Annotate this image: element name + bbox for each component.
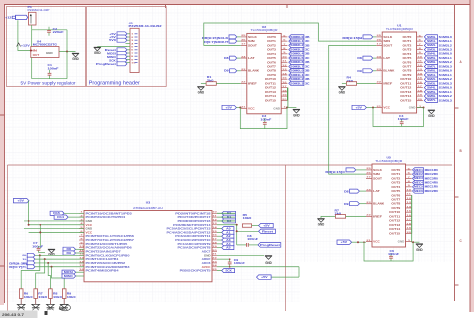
svg-text:OUT2: OUT2	[267, 43, 276, 47]
svg-text:D14: D14	[57, 215, 64, 219]
svg-text:OUT15: OUT15	[265, 98, 277, 102]
svg-text:OUT1: OUT1	[391, 172, 400, 176]
svg-text:S1M1L1: S1M1L1	[439, 57, 453, 60]
svg-text:OUT11: OUT11	[400, 81, 412, 85]
svg-text:+12V: +12V	[21, 43, 30, 47]
svg-text:GND: GND	[94, 51, 101, 55]
svg-text:OUT1: OUT1	[267, 39, 276, 43]
svg-text:3B: 3B	[305, 44, 310, 47]
svg-text:PCINT0/CLKO/ICP1/PB0: PCINT0/CLKO/ICP1/PB0	[86, 253, 131, 257]
svg-text:S1M2L2: S1M2L2	[439, 78, 453, 81]
svg-text:SM7L: SM7L	[427, 99, 436, 102]
svg-text:5V Power supply regulator: 5V Power supply regulator	[21, 80, 77, 85]
svg-text:PCINT7/XTAL2/TOSC2/PB7: PCINT7/XTAL2/TOSC2/PB7	[86, 238, 135, 242]
svg-text:S0M2L2: S0M2L2	[290, 78, 304, 81]
svg-text:D9: D9	[224, 69, 229, 73]
svg-text:100nF: 100nF	[388, 253, 400, 256]
svg-text:IREF: IREF	[248, 81, 257, 85]
svg-text:GND: GND	[198, 91, 205, 95]
svg-text:6: 6	[131, 50, 133, 52]
svg-text:MEC2R0: MEC2R0	[425, 190, 439, 193]
svg-text:S1M2L2: S1M2L2	[439, 95, 453, 98]
svg-text:PD1/TXD/PCINT17: PD1/TXD/PCINT17	[178, 215, 212, 219]
svg-text:3B: 3B	[305, 61, 310, 64]
svg-text:OUT8: OUT8	[391, 202, 400, 206]
svg-text:A4: A4	[226, 242, 231, 246]
svg-text:S1M1L1: S1M1L1	[439, 91, 453, 94]
svg-text:MOSI: MOSI	[107, 51, 116, 55]
svg-text:Reset: Reset	[105, 48, 116, 52]
svg-text:SOUT: SOUT	[373, 176, 382, 180]
svg-text:PCINT4/MISO/PB4: PCINT4/MISO/PB4	[86, 269, 120, 273]
svg-text:SM7L: SM7L	[427, 65, 436, 68]
svg-text:GND: GND	[265, 261, 272, 265]
svg-text:D9: D9	[67, 251, 72, 255]
svg-text:OUT4: OUT4	[391, 185, 400, 189]
svg-text:LAT: LAT	[373, 189, 380, 193]
svg-text:MEC4R0: MEC4R0	[425, 181, 439, 184]
svg-text:PC6/RESET/PCINT14: PC6/RESET/PCINT14	[173, 223, 211, 227]
svg-text:7: 7	[131, 53, 133, 55]
svg-text:S0M0L4: S0M0L4	[290, 53, 304, 56]
svg-text:100nF: 100nF	[48, 67, 60, 70]
svg-text:IREF: IREF	[373, 214, 382, 218]
svg-text:S1M0L0: S1M0L0	[439, 53, 453, 56]
svg-text:5V0: 5V0	[109, 38, 116, 42]
svg-text:GND: GND	[204, 253, 211, 257]
svg-text:SIN: SIN	[248, 39, 255, 43]
svg-text:S0M1L1: S0M1L1	[290, 74, 304, 77]
svg-text:D[0:7]SDOUT: D[0:7]SDOUT	[204, 40, 229, 44]
svg-text:ADC7: ADC7	[202, 250, 211, 254]
svg-text:10k0: 10k0	[67, 297, 77, 299]
svg-text:MEC1: MEC1	[414, 169, 424, 172]
svg-text:D8: D8	[344, 190, 349, 194]
svg-text:BLANK: BLANK	[248, 69, 259, 73]
svg-text:S0M3L7: S0M3L7	[290, 65, 304, 68]
svg-text:OUT4: OUT4	[267, 52, 276, 56]
svg-text:MEC2: MEC2	[414, 173, 424, 176]
svg-text:BLANK: BLANK	[373, 202, 384, 206]
svg-text:3B: 3B	[305, 78, 310, 81]
svg-text:SCK: SCK	[109, 58, 116, 62]
svg-text:OUT0: OUT0	[391, 168, 400, 172]
svg-text:OUT5: OUT5	[403, 56, 412, 60]
svg-text:PCINT20/XCK/T0/PD4: PCINT20/XCK/T0/PD4	[86, 215, 126, 219]
svg-text:PCINT21/OC0B/T1/PD5: PCINT21/OC0B/T1/PD5	[86, 242, 129, 246]
svg-text:3B: 3B	[305, 70, 310, 73]
svg-text:OUT0: OUT0	[267, 35, 276, 39]
svg-text:PC5/ADC5/SCL/PCINT13: PC5/ADC5/SCL/PCINT13	[167, 227, 212, 231]
svg-text:S0M2L2: S0M2L2	[290, 44, 304, 47]
svg-text:SM4L: SM4L	[427, 87, 436, 90]
svg-text:D8: D8	[357, 56, 362, 60]
svg-text:S1M1L1: S1M1L1	[439, 74, 453, 77]
svg-text:GND: GND	[416, 248, 423, 252]
svg-text:OUT7: OUT7	[267, 65, 276, 69]
svg-text:A5: A5	[226, 246, 231, 250]
svg-text:3C: 3C	[305, 40, 310, 43]
svg-text:VCC: VCC	[248, 106, 255, 110]
svg-text:S0M0L0: S0M0L0	[290, 70, 304, 73]
svg-text:ProgReset: ProgReset	[260, 243, 280, 247]
svg-text:PD2/INT0/PCINT18: PD2/INT0/PCINT18	[175, 211, 211, 215]
svg-text:MISO: MISO	[107, 55, 116, 59]
svg-text:SM0L: SM0L	[427, 36, 436, 39]
svg-text:PC0/ADC0/PCINT8: PC0/ADC0/PCINT8	[178, 246, 212, 250]
svg-text:Reset: Reset	[262, 229, 273, 233]
svg-text:D9: D9	[357, 69, 362, 73]
svg-text:OUT11: OUT11	[265, 81, 277, 85]
svg-text:SCK: SCK	[225, 269, 232, 273]
svg-text:GND: GND	[409, 106, 416, 110]
svg-text:TLC5940QDBQR: TLC5940QDBQR	[251, 28, 278, 32]
svg-text:PC1/ADC1/PCINT9: PC1/ADC1/PCINT9	[178, 242, 212, 246]
svg-text:OUT12: OUT12	[265, 86, 277, 90]
svg-text:PC3/ADC3/PCINT11: PC3/ADC3/PCINT11	[175, 234, 211, 238]
svg-text:10k0: 10k0	[243, 217, 253, 220]
svg-text:MEC3: MEC3	[414, 177, 424, 180]
svg-text:9: 9	[131, 59, 133, 61]
svg-text:GND: GND	[318, 223, 325, 227]
svg-text:OUT8: OUT8	[267, 69, 276, 73]
svg-text:MISO: MISO	[64, 274, 73, 278]
svg-text:S1M0L0: S1M0L0	[439, 36, 453, 39]
svg-text:SIN: SIN	[373, 172, 380, 176]
svg-text:S1M2L2: S1M2L2	[439, 61, 453, 64]
svg-text:MEC5: MEC5	[414, 186, 424, 189]
svg-text:S1M3L3: S1M3L3	[439, 82, 453, 85]
svg-text:P22MA/11-02P: P22MA/11-02P	[28, 9, 51, 12]
svg-text:SCLK: SCLK	[373, 168, 382, 172]
svg-text:+5V: +5V	[263, 224, 270, 228]
svg-text:OUT14: OUT14	[265, 94, 277, 98]
svg-text:SM2L: SM2L	[427, 78, 436, 81]
svg-text:OUT6: OUT6	[391, 193, 400, 197]
svg-text:S0M1L5: S0M1L5	[290, 57, 304, 60]
svg-text:S0M3L3: S0M3L3	[290, 48, 304, 51]
svg-text:S0M0L0: S0M0L0	[290, 36, 304, 39]
svg-text:PCINT2/SS/OC1B/PB2: PCINT2/SS/OC1B/PB2	[86, 261, 126, 265]
svg-text:SM2L: SM2L	[427, 44, 436, 47]
svg-text:SM4L: SM4L	[427, 53, 436, 56]
svg-text:S1M1L1: S1M1L1	[439, 40, 453, 43]
svg-text:PCINT22/OC0A/AIN0/PD6: PCINT22/OC0A/AIN0/PD6	[86, 246, 133, 250]
svg-text:PD0/RXD/PCINT16: PD0/RXD/PCINT16	[178, 219, 212, 223]
svg-text:GND: GND	[86, 219, 93, 223]
svg-text:220nF: 220nF	[53, 31, 65, 34]
svg-text:GND: GND	[339, 91, 346, 95]
svg-text:OUT7: OUT7	[403, 65, 412, 69]
svg-text:GND: GND	[398, 240, 405, 244]
svg-text:GND: GND	[86, 227, 93, 231]
svg-text:OUT5: OUT5	[267, 56, 276, 60]
svg-text:S1M0L0: S1M0L0	[439, 87, 453, 90]
svg-text:SM1L: SM1L	[427, 40, 436, 43]
svg-text:SCLK: SCLK	[248, 35, 257, 39]
svg-text:OUT7: OUT7	[391, 198, 400, 202]
svg-text:OUT9: OUT9	[267, 73, 276, 77]
svg-text:OUT1: OUT1	[403, 39, 412, 43]
svg-text:3C: 3C	[305, 57, 310, 60]
svg-text:OUT14: OUT14	[400, 94, 412, 98]
svg-text:D15: D15	[53, 211, 60, 215]
svg-text:MEC2R0: MEC2R0	[425, 173, 439, 176]
svg-text:GND: GND	[273, 106, 280, 110]
svg-text:SIN: SIN	[383, 39, 390, 43]
svg-text:SM5L: SM5L	[427, 91, 436, 94]
svg-text:OUT6: OUT6	[403, 60, 412, 64]
svg-text:OUT10: OUT10	[400, 77, 412, 81]
svg-text:100nF: 100nF	[260, 118, 272, 121]
svg-text:PCINT6/XTAL1/TOSC1/PB6: PCINT6/XTAL1/TOSC1/PB6	[86, 234, 135, 238]
svg-text:S1M3L3: S1M3L3	[439, 48, 453, 51]
svg-text:3C: 3C	[305, 48, 310, 51]
svg-text:+5V: +5V	[225, 105, 232, 109]
svg-text:D8: D8	[224, 56, 229, 60]
svg-text:SM3L: SM3L	[427, 48, 436, 51]
svg-text:PCINT1/OC1A/PB1: PCINT1/OC1A/PB1	[86, 257, 120, 261]
svg-text:100nF: 100nF	[398, 118, 410, 121]
svg-text:OUT6: OUT6	[267, 60, 276, 64]
svg-text:PCINT23/AIN1/PD7: PCINT23/AIN1/PD7	[86, 250, 122, 254]
svg-text:OUT5: OUT5	[391, 189, 400, 193]
svg-text:PB5/SCK/PCINT5: PB5/SCK/PCINT5	[180, 269, 212, 273]
svg-text:SM5L: SM5L	[427, 57, 436, 60]
svg-text:2: 2	[131, 37, 133, 39]
svg-text:10k0: 10k0	[24, 297, 34, 299]
svg-text:OUT8: OUT8	[403, 69, 412, 73]
svg-text:TLC5940QDBQR: TLC5940QDBQR	[375, 159, 402, 163]
svg-text:3C: 3C	[305, 65, 310, 68]
svg-text:VCC: VCC	[383, 106, 390, 110]
svg-text:OUT14: OUT14	[389, 227, 401, 231]
svg-text:VCC: VCC	[373, 240, 380, 244]
svg-text:OUT12: OUT12	[389, 219, 401, 223]
svg-text:A0: A0	[226, 226, 231, 230]
svg-text:OUT15: OUT15	[400, 98, 412, 102]
svg-text:3B: 3B	[305, 36, 310, 39]
svg-text:S0M1L1: S0M1L1	[290, 40, 304, 43]
svg-text:S0M3L3: S0M3L3	[290, 82, 304, 85]
svg-text:D9: D9	[344, 202, 349, 206]
svg-text:SCLK: SCLK	[383, 35, 392, 39]
svg-text:OUT15: OUT15	[389, 231, 401, 235]
svg-text:MEC1R0: MEC1R0	[425, 186, 439, 189]
svg-text:3C: 3C	[305, 82, 310, 85]
svg-text:OUT11: OUT11	[389, 214, 401, 218]
svg-text:1: 1	[131, 34, 133, 36]
svg-text:OUT4: OUT4	[403, 52, 412, 56]
svg-text:OUT10: OUT10	[389, 210, 401, 214]
svg-text:SM6L: SM6L	[427, 95, 436, 98]
svg-text:8: 8	[131, 56, 133, 58]
svg-text:TLC5940QDBQR: TLC5940QDBQR	[386, 27, 413, 31]
svg-text:D[0:7]: D[0:7]	[9, 266, 22, 269]
svg-text:3: 3	[131, 40, 133, 42]
svg-text:S1M2L2: S1M2L2	[439, 44, 453, 47]
svg-text:MEC3R0: MEC3R0	[425, 177, 439, 180]
svg-text:GND: GND	[72, 57, 79, 61]
svg-text:DR[9:15]B: DR[9:15]B	[342, 36, 362, 40]
svg-text:OUT: OUT	[33, 54, 40, 57]
svg-text:206.43 0.7: 206.43 0.7	[2, 313, 24, 317]
svg-text:PZ254R-11-09-B2: PZ254R-11-09-B2	[129, 25, 163, 28]
svg-text:3C: 3C	[305, 74, 310, 77]
svg-text:MEC1R0: MEC1R0	[425, 169, 439, 172]
svg-text:OUT3: OUT3	[267, 48, 276, 52]
svg-text:LAT: LAT	[248, 56, 255, 60]
svg-text:S0M2L6: S0M2L6	[290, 61, 304, 64]
svg-text:Programming header: Programming header	[89, 80, 140, 86]
svg-text:AREF: AREF	[202, 257, 211, 261]
svg-text:BLANK: BLANK	[383, 69, 394, 73]
svg-text:DR[9:15]SCLK: DR[9:15]SCLK	[202, 36, 229, 40]
svg-text:SM3L: SM3L	[427, 82, 436, 85]
svg-text:+5V: +5V	[355, 105, 362, 109]
svg-text:S1M3L3: S1M3L3	[439, 99, 453, 102]
svg-text:LAT: LAT	[383, 56, 390, 60]
svg-text:IREF: IREF	[383, 81, 392, 85]
svg-text:3B: 3B	[305, 53, 310, 56]
svg-text:MC7805CD2TG: MC7805CD2TG	[33, 44, 57, 47]
svg-text:A1: A1	[226, 230, 231, 234]
svg-text:PCINT3/OC2A/MOSI/PB3: PCINT3/OC2A/MOSI/PB3	[86, 265, 131, 269]
svg-text:AVCC: AVCC	[202, 265, 211, 269]
svg-text:100nF: 100nF	[247, 238, 259, 241]
svg-text:OUT13: OUT13	[265, 90, 277, 94]
svg-text:+5V: +5V	[341, 240, 348, 244]
svg-text:SM1L: SM1L	[427, 74, 436, 77]
svg-text:MOSI: MOSI	[64, 270, 73, 274]
svg-text:A3: A3	[226, 238, 231, 242]
svg-text:SOUT: SOUT	[383, 43, 392, 47]
svg-text:DR[9:15]C: DR[9:15]C	[325, 170, 345, 174]
svg-text:MEC6: MEC6	[414, 190, 424, 193]
svg-text:A2: A2	[226, 234, 231, 238]
svg-text:S1M0L0: S1M0L0	[439, 70, 453, 73]
svg-text:S1M3L3: S1M3L3	[439, 65, 453, 68]
svg-text:OUT2: OUT2	[403, 43, 412, 47]
svg-text:OUT13: OUT13	[389, 223, 401, 227]
svg-text:OUT12: OUT12	[400, 86, 412, 90]
svg-text:OUT9: OUT9	[391, 206, 400, 210]
svg-text:OUT3: OUT3	[403, 48, 412, 52]
svg-text:OUT3: OUT3	[391, 181, 400, 185]
svg-text:IN: IN	[33, 50, 38, 53]
svg-text:ATMEGA328P-AU: ATMEGA328P-AU	[133, 206, 163, 210]
svg-text:GND: GND	[46, 52, 53, 55]
svg-text:OUT9: OUT9	[403, 73, 412, 77]
svg-text:GND: GND	[48, 252, 55, 256]
svg-text:PC4/ADC4/SDA/PCINT12: PC4/ADC4/SDA/PCINT12	[167, 230, 212, 234]
svg-text:GND: GND	[428, 114, 435, 118]
svg-text:+5V: +5V	[261, 275, 268, 279]
svg-text:5: 5	[131, 47, 133, 49]
svg-text:VCC: VCC	[86, 223, 93, 227]
svg-text:OUT0: OUT0	[403, 35, 412, 39]
svg-text:OUT2: OUT2	[391, 176, 400, 180]
svg-text:ProgReset: ProgReset	[96, 62, 116, 66]
svg-text:OUT13: OUT13	[400, 90, 412, 94]
svg-text:VCC: VCC	[86, 230, 93, 234]
svg-text:PCINT19/OC2B/INT1/PD3: PCINT19/OC2B/INT1/PD3	[86, 211, 133, 215]
svg-text:OUT10: OUT10	[265, 77, 277, 81]
svg-text:10k0: 10k0	[53, 297, 63, 299]
svg-text:MEC4: MEC4	[414, 181, 424, 184]
svg-text:10k0: 10k0	[38, 297, 48, 299]
svg-text:SOUT: SOUT	[248, 43, 257, 47]
svg-text:SM6L: SM6L	[427, 61, 436, 64]
svg-text:ADC6: ADC6	[202, 261, 211, 265]
svg-text:PC2/ADC2/PCINT10: PC2/ADC2/PCINT10	[175, 238, 211, 242]
svg-text:+5V: +5V	[17, 199, 24, 203]
svg-text:SM0L: SM0L	[427, 70, 436, 73]
svg-text:100nF: 100nF	[234, 262, 246, 265]
svg-text:GND: GND	[293, 113, 300, 117]
